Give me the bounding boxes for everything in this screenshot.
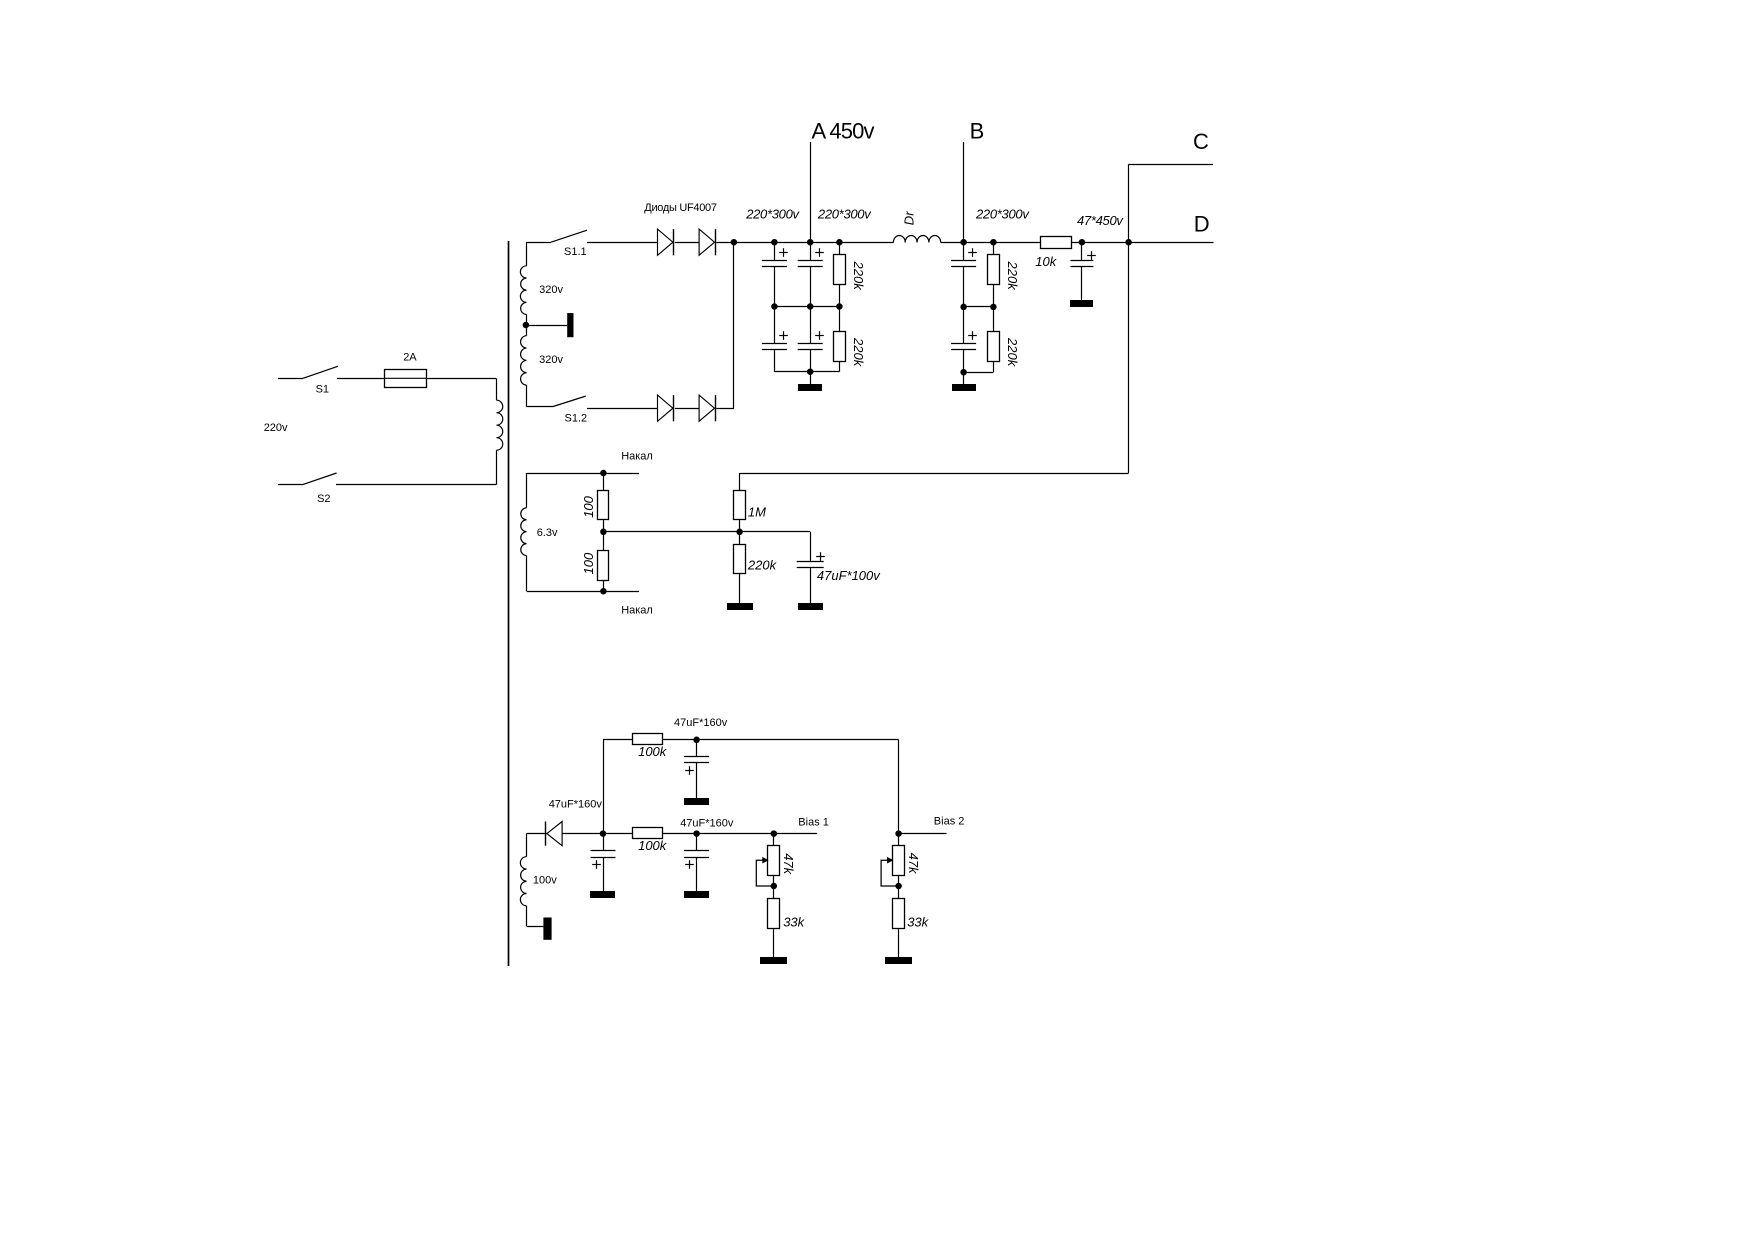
svg-text:B: B — [970, 119, 985, 144]
svg-text:220k: 220k — [851, 337, 866, 368]
svg-text:220k: 220k — [1005, 261, 1020, 292]
svg-text:Диоды UF4007: Диоды UF4007 — [644, 202, 717, 214]
svg-text:220k: 220k — [747, 558, 778, 573]
svg-text:D: D — [1194, 212, 1210, 237]
svg-text:47k: 47k — [781, 853, 796, 875]
svg-text:220v: 220v — [264, 422, 288, 434]
svg-text:100: 100 — [581, 552, 596, 574]
svg-text:S2: S2 — [317, 493, 330, 505]
svg-text:1M: 1M — [748, 505, 766, 520]
svg-text:Накал: Накал — [621, 605, 653, 617]
svg-text:Bias 2: Bias 2 — [934, 816, 965, 828]
svg-text:6.3v: 6.3v — [537, 527, 558, 539]
svg-text:320v: 320v — [539, 284, 563, 296]
svg-text:S1.1: S1.1 — [564, 246, 587, 258]
svg-text:33k: 33k — [783, 915, 805, 930]
svg-text:47uF*100v: 47uF*100v — [817, 568, 881, 583]
svg-text:220*300v: 220*300v — [745, 206, 800, 221]
svg-text:47uF*160v: 47uF*160v — [674, 717, 728, 729]
svg-text:47*450v: 47*450v — [1077, 213, 1124, 228]
svg-text:C: C — [1193, 129, 1209, 154]
svg-text:10k: 10k — [1035, 254, 1057, 269]
svg-text:220*300v: 220*300v — [817, 206, 872, 221]
svg-text:47uF*160v: 47uF*160v — [680, 817, 734, 829]
svg-text:Dr: Dr — [902, 211, 917, 225]
svg-text:220k: 220k — [1005, 337, 1020, 368]
svg-text:S1.2: S1.2 — [565, 413, 588, 425]
svg-text:100: 100 — [581, 495, 596, 517]
svg-text:220k: 220k — [851, 261, 866, 292]
svg-text:A 450v: A 450v — [812, 119, 875, 144]
svg-text:320v: 320v — [539, 354, 563, 366]
svg-text:100v: 100v — [533, 875, 557, 887]
svg-text:S1: S1 — [316, 384, 329, 396]
svg-text:Bias 1: Bias 1 — [798, 817, 829, 829]
svg-text:100k: 100k — [638, 744, 668, 759]
svg-text:47k: 47k — [906, 853, 921, 875]
svg-text:47uF*160v: 47uF*160v — [549, 799, 603, 811]
svg-text:2A: 2A — [403, 352, 417, 364]
svg-text:100k: 100k — [638, 838, 668, 853]
svg-text:220*300v: 220*300v — [975, 206, 1030, 221]
svg-text:Накал: Накал — [621, 451, 653, 463]
svg-text:33k: 33k — [907, 915, 929, 930]
